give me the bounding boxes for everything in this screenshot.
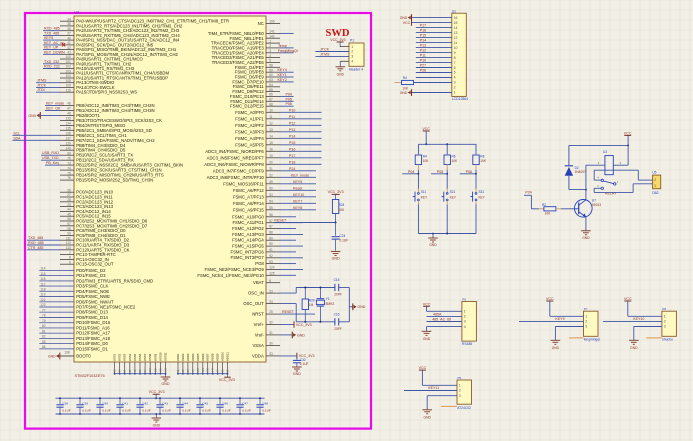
wire beeper pin3 to ground	[555, 326, 583, 328]
svg-text:97: 97	[67, 222, 71, 226]
svg-text:AT24C02: AT24C02	[457, 406, 471, 410]
svg-text:110: 110	[66, 88, 71, 92]
pin PF4 (14) net P14	[266, 137, 280, 139]
wire LCD pin11 net P14	[416, 42, 452, 44]
pin PF3 (13) net P13	[266, 131, 280, 133]
wire JTCK to header pin2	[315, 51, 349, 53]
node P04 key column	[402, 173, 418, 175]
svg-text:ADC3_IN8/FSMC_INTR/PF10: ADC3_IN8/FSMC_INTR/PF10	[207, 175, 265, 180]
svg-text:139: 139	[66, 142, 71, 146]
wire contact 4 to DB2 pin2	[594, 169, 638, 171]
svg-text:15: 15	[269, 141, 273, 145]
svg-text:KEY: KEY	[478, 196, 485, 200]
pin PF15 (55) net KEY8	[266, 209, 280, 211]
svg-text:C39: C39	[82, 402, 88, 406]
power flag VCC_3V3 on Vref+	[280, 324, 294, 326]
svg-text:3: 3	[459, 394, 461, 398]
pin PD10 (79)	[39, 322, 74, 324]
svg-text:30: 30	[269, 342, 273, 346]
svg-text:144: 144	[211, 368, 215, 373]
svg-text:0.1UF: 0.1UF	[62, 409, 71, 413]
svg-text:70: 70	[67, 156, 71, 160]
svg-text:67: 67	[269, 98, 273, 102]
svg-text:P27: P27	[420, 64, 426, 68]
svg-text:VDD9: VDD9	[216, 353, 220, 361]
svg-text:0.1UF: 0.1UF	[162, 409, 171, 413]
pin PA9 (101) net TXD_232	[60, 63, 74, 65]
svg-text:S11: S11	[421, 190, 427, 194]
pin VBAT (6)	[266, 282, 280, 284]
wire RS485 pin4 to ground	[427, 326, 462, 328]
svg-text:VDD2: VDD2	[181, 353, 185, 361]
svg-text:KEY11: KEY11	[428, 386, 439, 390]
svg-text:JTDI: JTDI	[37, 88, 45, 92]
svg-text:13: 13	[454, 31, 458, 35]
svg-text:P12: P12	[420, 49, 426, 53]
capacitor C40 0.1UF	[99, 398, 101, 404]
svg-text:GND: GND	[293, 372, 301, 376]
wire LCD pin8 net P11	[416, 57, 452, 59]
capacitor C46 0.1UF	[219, 398, 221, 404]
pin PA7 (43) net KEY_DOWN	[60, 53, 74, 55]
pin PE1 (142)	[266, 37, 280, 39]
capacitor C15 20PF	[334, 284, 336, 291]
svg-text:RXD_232: RXD_232	[44, 65, 60, 69]
svg-text:4: 4	[454, 76, 456, 80]
svg-text:FSMC_A9/PF15: FSMC_A9/PF15	[233, 207, 265, 212]
svg-text:0.1UF: 0.1UF	[182, 409, 191, 413]
svg-text:VSS9: VSS9	[153, 353, 157, 361]
svg-text:VCC_3V3: VCC_3V3	[296, 323, 312, 327]
pin PB13 (74)	[60, 169, 74, 171]
pin PF9 (21) net P24	[266, 170, 280, 172]
pin PE15 (68) net P06	[266, 105, 280, 107]
svg-text:105: 105	[66, 79, 71, 83]
svg-text:121: 121	[201, 368, 205, 373]
svg-text:P10: P10	[289, 108, 295, 112]
svg-text:112: 112	[66, 241, 71, 245]
svg-text:OSC_IN: OSC_IN	[248, 291, 264, 296]
pin PF6 (18) net P16	[266, 150, 280, 152]
pins VSS1-VSS11 bottom group	[114, 362, 116, 374]
pin PA12 (104)	[60, 77, 74, 79]
svg-text:P6: P6	[462, 297, 466, 301]
svg-text:50: 50	[269, 187, 273, 191]
ground keys	[432, 234, 434, 238]
svg-text:Temp: Temp	[278, 44, 287, 48]
svg-text:P13: P13	[420, 44, 426, 48]
pin PG10 (125)	[266, 274, 280, 276]
svg-text:VSSA: VSSA	[252, 343, 264, 348]
pin PA11 (103)	[60, 72, 74, 74]
svg-text:80: 80	[42, 324, 46, 328]
pin PE6 (5)	[266, 62, 280, 64]
svg-text:P06: P06	[466, 170, 472, 174]
svg-text:P04: P04	[286, 92, 292, 96]
svg-text:VSS5: VSS5	[133, 353, 137, 361]
svg-text:43: 43	[67, 51, 71, 55]
relay blade and NO pin 1	[604, 181, 614, 184]
svg-text:VCC_3V3: VCC_3V3	[219, 378, 235, 382]
svg-text:25: 25	[269, 310, 273, 314]
pin PB10 (69) net USB_RXD	[60, 154, 74, 156]
capacitor C24 0.1UF	[335, 223, 337, 236]
svg-text:3: 3	[454, 81, 456, 85]
capacitor C45 0.1UF	[199, 398, 201, 404]
svg-text:PB15/SPI2_MOSI/I2S2_SD/TIM1_CH: PB15/SPI2_MOSI/I2S2_SD/TIM1_CH3N	[76, 178, 153, 183]
svg-text:2: 2	[664, 320, 666, 324]
svg-text:STM32F103ZET6: STM32F103ZET6	[75, 374, 105, 378]
resistor R8 10K pull-up	[475, 144, 477, 154]
pin PG4 (89)	[266, 239, 280, 241]
svg-text:GND: GND	[630, 346, 638, 350]
svg-text:8MHZ: 8MHZ	[326, 302, 335, 306]
svg-text:FSMC_A11/PG1: FSMC_A11/PG1	[232, 220, 264, 225]
svg-text:VDD3: VDD3	[186, 353, 190, 361]
svg-text:5: 5	[269, 59, 271, 63]
svg-text:46: 46	[67, 102, 71, 106]
svg-text:KEY10: KEY10	[633, 317, 644, 321]
pin OSC_IN (23)	[266, 292, 280, 294]
svg-text:P11: P11	[289, 115, 295, 119]
node P06 key column	[460, 173, 476, 175]
svg-text:143: 143	[164, 368, 168, 373]
ground below C32	[292, 366, 302, 368]
svg-text:VSS8: VSS8	[148, 353, 152, 361]
svg-text:ADC3_IN7/FSMC_CD/PF9: ADC3_IN7/FSMC_CD/PF9	[213, 168, 265, 173]
pin PG8 (93)	[266, 263, 280, 265]
ground LCD pin1	[412, 92, 452, 94]
svg-text:VSS3: VSS3	[123, 353, 127, 361]
wire RS485 pin3 net 485_AC_66	[427, 321, 462, 323]
pin PE12 (65)	[266, 91, 280, 93]
svg-text:2: 2	[464, 315, 466, 319]
svg-text:P26: P26	[420, 69, 426, 73]
pin PA0 (34)	[60, 20, 74, 22]
pin PA14 (109) net JTCK	[60, 86, 74, 88]
capacitor C48 0.1UF	[259, 398, 261, 404]
pin Vref+ (32)	[266, 324, 280, 326]
wire crystal right leg	[348, 288, 350, 322]
svg-text:0.1UF: 0.1UF	[242, 409, 251, 413]
svg-text:GND: GND	[552, 346, 560, 350]
pin PD12 (81)	[39, 332, 74, 334]
svg-text:KEY9: KEY9	[293, 180, 302, 184]
pin PD14 (85)	[39, 343, 74, 345]
wire coil to collector	[585, 165, 587, 200]
svg-text:33: 33	[269, 352, 273, 356]
pin PG3 (88)	[266, 233, 280, 235]
svg-text:3: 3	[585, 325, 587, 329]
svg-text:44: 44	[67, 208, 71, 212]
svg-text:0.1UF: 0.1UF	[102, 409, 111, 413]
svg-text:P15: P15	[289, 141, 295, 145]
capacitor C44 0.1UF	[179, 398, 181, 404]
pin PD1 (115)	[39, 275, 74, 277]
svg-text:P24: P24	[525, 191, 531, 195]
capacitor C16 20PF	[334, 318, 336, 325]
svg-text:FSMC_A14/PG4: FSMC_A14/PG4	[232, 238, 264, 243]
pin PC1 (27)	[60, 196, 74, 198]
pin PC0 (26)	[60, 191, 74, 193]
svg-text:FSMC_A13/PG3: FSMC_A13/PG3	[232, 232, 264, 237]
svg-text:45: 45	[67, 212, 71, 216]
ground RS485	[422, 330, 432, 332]
svg-text:9: 9	[454, 51, 456, 55]
svg-text:R24: R24	[339, 203, 345, 207]
label fengmingqi	[569, 337, 584, 339]
pin PC2 (28)	[60, 201, 74, 203]
svg-text:P17: P17	[420, 24, 426, 28]
svg-text:VDD7: VDD7	[206, 353, 210, 361]
svg-text:10K: 10K	[339, 208, 346, 212]
wire VDD bus	[178, 373, 228, 375]
ground transistor	[581, 230, 591, 232]
svg-text:TXD_232: TXD_232	[44, 60, 59, 64]
svg-text:1: 1	[664, 315, 666, 319]
svg-text:VSS6: VSS6	[138, 353, 142, 361]
svg-text:10K: 10K	[545, 212, 552, 216]
svg-text:12: 12	[454, 36, 458, 40]
svg-text:R20: R20	[309, 299, 315, 303]
svg-text:77: 77	[42, 308, 46, 312]
pin PB11 (70) net USB_TXD	[60, 159, 74, 161]
svg-text:P16: P16	[289, 147, 295, 151]
pin PD11 (80)	[39, 327, 74, 329]
wire VSS bus	[115, 373, 166, 375]
svg-text:P8: P8	[662, 307, 666, 311]
svg-text:109: 109	[66, 84, 71, 88]
svg-text:NRST: NRST	[252, 312, 264, 317]
svg-text:2: 2	[585, 320, 587, 324]
capacitor C41 0.1UF	[119, 398, 121, 404]
pin PC10 (111) net TXD_485	[60, 239, 74, 241]
svg-text:3: 3	[464, 320, 466, 324]
pin PC14 (8)	[60, 258, 74, 260]
pin PF1 (11) net P11	[266, 118, 280, 120]
svg-text:FSMC_A12/PG2: FSMC_A12/PG2	[232, 226, 264, 231]
pin BOOT0 (138) tied to ground	[60, 355, 74, 357]
svg-text:RESET: RESET	[282, 310, 295, 314]
pin PF10 (22) net KEY_mode	[266, 176, 280, 178]
svg-text:124: 124	[269, 266, 274, 270]
svg-text:KEY2: KEY2	[278, 78, 287, 82]
resistor R2 10K base	[531, 208, 539, 210]
svg-text:PD11/FSMC_A16: PD11/FSMC_A16	[76, 325, 110, 330]
svg-text:99: 99	[67, 232, 71, 236]
pin PB7 (137)	[60, 139, 74, 141]
svg-text:23: 23	[269, 289, 273, 293]
svg-text:P14: P14	[420, 39, 426, 43]
pin Vref- (31)	[266, 334, 280, 336]
pin PC8 (98)	[60, 230, 74, 232]
switch S11 KEY	[417, 189, 419, 193]
svg-text:60: 60	[269, 73, 273, 77]
svg-text:1: 1	[351, 45, 353, 49]
svg-text:Y1: Y1	[326, 297, 330, 301]
svg-text:93: 93	[269, 260, 273, 264]
svg-text:140: 140	[66, 146, 71, 150]
resistor R4 10K LCD backlight	[395, 82, 402, 84]
svg-text:49: 49	[269, 180, 273, 184]
svg-text:57: 57	[269, 219, 273, 223]
svg-text:64: 64	[269, 83, 273, 87]
svg-text:66: 66	[269, 93, 273, 97]
pin PB3 (133)	[60, 119, 74, 121]
pin PE2 (1)	[266, 42, 280, 44]
wire header pin4 to GND	[340, 60, 349, 62]
svg-text:VDD8: VDD8	[211, 353, 215, 361]
pin PE11 (64)	[266, 86, 280, 88]
svg-text:4: 4	[269, 54, 271, 58]
pin PF5 (15) net P15	[266, 144, 280, 146]
svg-text:C46: C46	[222, 402, 228, 406]
wire JTMS to header pin3	[315, 55, 349, 57]
svg-text:12: 12	[269, 122, 273, 126]
svg-text:104: 104	[66, 74, 71, 78]
svg-text:11: 11	[454, 41, 458, 45]
wire LCD pin4	[416, 77, 452, 79]
relay contact pin 2	[594, 187, 601, 189]
svg-text:VSS1: VSS1	[113, 353, 117, 361]
svg-text:86: 86	[42, 345, 46, 349]
pin PB2 (48)	[60, 114, 74, 116]
svg-text:485_AC_66: 485_AC_66	[432, 318, 451, 322]
svg-text:FSMC_A2/PF2: FSMC_A2/PF2	[235, 123, 264, 128]
svg-text:FSMC_A1/PF1: FSMC_A1/PF1	[235, 116, 264, 121]
svg-text:VDD5: VDD5	[196, 353, 200, 361]
pin PF14 (54) net KEY7	[266, 202, 280, 204]
pin PF12 (50) net Reset	[266, 189, 280, 191]
svg-text:2: 2	[459, 389, 461, 393]
pin PA10 (102) net RXD_232	[60, 68, 74, 70]
svg-text:KEY8: KEY8	[293, 206, 302, 210]
svg-text:0.1UF: 0.1UF	[222, 409, 231, 413]
svg-text:106: 106	[269, 20, 274, 24]
svg-text:P05: P05	[286, 97, 292, 101]
ground LCD pin16	[412, 17, 452, 19]
pin PD0 (114)	[39, 269, 74, 271]
svg-text:100: 100	[66, 55, 71, 59]
svg-text:96: 96	[67, 217, 71, 221]
svg-text:59: 59	[269, 68, 273, 72]
svg-text:KEY7: KEY7	[293, 199, 302, 203]
wire RESET node	[274, 222, 336, 224]
pin PD15 (86)	[39, 348, 74, 350]
label shuchu	[646, 337, 662, 339]
svg-text:82: 82	[42, 335, 46, 339]
pin PC3 (29)	[60, 206, 74, 208]
svg-text:GND: GND	[162, 382, 170, 386]
svg-text:Reset: Reset	[293, 186, 302, 190]
svg-text:VBAT: VBAT	[253, 280, 264, 285]
pin PA4 (40) net KEY5	[60, 39, 74, 41]
pin PA8 (100)	[60, 58, 74, 60]
svg-text:8: 8	[454, 56, 456, 60]
svg-text:OSC_OUT: OSC_OUT	[243, 301, 264, 306]
svg-text:P12: P12	[289, 121, 295, 125]
svg-text:VSS7: VSS7	[143, 353, 147, 361]
svg-text:P16: P16	[420, 29, 426, 33]
svg-text:10K: 10K	[423, 159, 430, 163]
svg-text:FSMC_A10/PG0: FSMC_A10/PG0	[232, 214, 264, 219]
svg-text:54: 54	[269, 200, 273, 204]
svg-text:1: 1	[269, 39, 271, 43]
svg-text:SDA: SDA	[13, 136, 21, 140]
svg-text:RXD_485: RXD_485	[28, 241, 44, 245]
svg-text:VDD4: VDD4	[191, 353, 195, 361]
svg-text:FSMC_NCE4_1/FSMC_NE3/PG10: FSMC_NCE4_1/FSMC_NE3/PG10	[197, 273, 264, 278]
svg-text:4: 4	[464, 325, 466, 329]
svg-text:14: 14	[269, 135, 273, 139]
pins VDD1-VDD11 bottom group	[177, 362, 179, 374]
svg-text:P9: P9	[458, 376, 462, 380]
svg-text:VDD6: VDD6	[201, 353, 205, 361]
switch S31 KEY	[475, 189, 477, 193]
svg-text:KEY_UP: KEY_UP	[44, 46, 59, 50]
wire cap bank bottom rail	[56, 413, 265, 415]
pin NC (106)	[266, 22, 280, 24]
svg-text:R4: R4	[423, 155, 427, 159]
svg-text:22: 22	[269, 174, 273, 178]
svg-text:2: 2	[654, 178, 656, 182]
svg-text:6: 6	[454, 66, 456, 70]
svg-text:0.1UF: 0.1UF	[300, 362, 309, 366]
resistor R6 10K pull-up	[446, 144, 448, 154]
wire LCD pin10 net P13	[416, 47, 452, 49]
svg-text:KEY1: KEY1	[278, 73, 287, 77]
svg-text:P06: P06	[286, 102, 292, 106]
wire emitter to ground	[585, 217, 587, 230]
svg-text:21: 21	[269, 167, 273, 171]
pin PB8 (139)	[60, 144, 74, 146]
svg-text:C43: C43	[162, 402, 168, 406]
svg-text:91: 91	[269, 248, 273, 252]
pin PG1 (57)	[266, 222, 280, 224]
svg-text:P1: P1	[350, 38, 354, 42]
pin PC6 (96)	[60, 220, 74, 222]
pin PF13 (53) net KEY10	[266, 196, 280, 198]
svg-text:20: 20	[269, 161, 273, 165]
svg-text:3: 3	[351, 55, 353, 59]
wire LCD pin5 net P26	[416, 72, 452, 74]
pin PG0 (56)	[266, 216, 280, 218]
svg-text:125: 125	[269, 272, 274, 276]
pin PB1 (47) net KEY_OK	[60, 110, 74, 112]
svg-text:P13: P13	[289, 128, 295, 132]
ground SWD	[336, 66, 346, 68]
svg-text:113: 113	[66, 246, 71, 250]
pin PA6 (42) net KEY_UP	[60, 49, 74, 51]
svg-text:31: 31	[269, 331, 273, 335]
pin PE4 (3) net FengMingQi	[266, 52, 280, 54]
svg-text:11: 11	[269, 115, 273, 119]
svg-text:PB_Key: PB_Key	[46, 161, 59, 165]
svg-text:PD8/FSMC_D13: PD8/FSMC_D13	[76, 310, 108, 315]
svg-text:9: 9	[69, 260, 71, 264]
pin PB4 (134)	[60, 124, 74, 126]
pin PG9 (124)	[266, 268, 280, 270]
svg-text:36: 36	[67, 27, 71, 31]
svg-text:75: 75	[67, 171, 71, 175]
svg-text:134: 134	[66, 122, 71, 126]
svg-text:40: 40	[67, 36, 71, 40]
svg-text:P17: P17	[289, 154, 295, 158]
wire LCD pin13 net P16	[416, 32, 452, 34]
svg-text:FSMC_A5/PF5: FSMC_A5/PF5	[235, 142, 264, 147]
svg-text:FSMC_D12/PE15: FSMC_D12/PE15	[230, 104, 264, 109]
wire header pin1 to VCC	[340, 46, 349, 48]
